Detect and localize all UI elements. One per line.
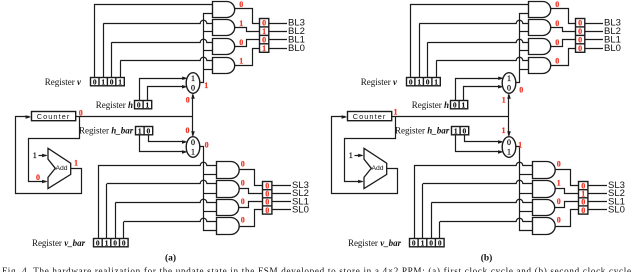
- svg-text:0: 0: [412, 239, 416, 248]
- svg-text:0: 0: [241, 197, 245, 206]
- svg-text:0: 0: [578, 44, 582, 53]
- svg-text:1: 1: [507, 74, 511, 83]
- AND gate SL3 (a): [217, 162, 240, 179]
- svg-text:0: 0: [147, 127, 151, 136]
- svg-text:0: 0: [186, 126, 190, 135]
- wire trunk tee to SL gate 2 (b): [520, 193, 533, 195]
- svg-text:1: 1: [118, 78, 122, 87]
- svg-text:Register h: Register h: [412, 100, 449, 110]
- adder (a): [48, 148, 71, 188]
- wire select to mux2 (b): [508, 117, 510, 136]
- svg-text:1: 1: [557, 179, 561, 188]
- wire BL gate 1 output (a): [235, 9, 260, 24]
- mux U2 (a): [186, 137, 200, 158]
- wire h_bar[0] to mux2 input 0 (b): [465, 135, 502, 142]
- register v_bar cells (b): [410, 239, 445, 247]
- wire trunk tee to BL gate 2 (b): [520, 31, 529, 33]
- wire to BL0 (b): [585, 48, 603, 50]
- AND gate SL2 (b): [533, 181, 556, 198]
- svg-text:0: 0: [426, 78, 430, 87]
- svg-text:1: 1: [204, 81, 208, 90]
- wire mux2 output trunk (a): [200, 147, 217, 231]
- svg-text:1: 1: [191, 74, 195, 83]
- wire to SL1 (b): [588, 201, 607, 203]
- wire to SL3 (b): [588, 185, 607, 187]
- svg-text:0: 0: [519, 85, 523, 94]
- svg-text:0: 0: [239, 0, 243, 9]
- svg-text:1: 1: [421, 239, 425, 248]
- svg-text:1: 1: [105, 239, 109, 248]
- wire trunk tee to BL gate 4 (a): [204, 69, 213, 71]
- wire adder output feedback to counter (b): [332, 117, 398, 194]
- svg-text:Counter: Counter: [37, 112, 71, 121]
- wire h_bar[0] to mux2 input 0 (a): [149, 135, 186, 142]
- wire v[2] to BL gate 2 (a): [103, 24, 105, 78]
- svg-text:Fig. 4. The hardware realiza: Fig. 4. The hardware realization for the…: [2, 266, 634, 272]
- wire v_bar[3] to SL gate 1 (b): [414, 165, 416, 239]
- svg-text:SL0: SL0: [608, 204, 625, 215]
- svg-text:Register h_bar: Register h_bar: [395, 125, 450, 135]
- wire h[0] to mux1 input 0 (b): [464, 87, 502, 101]
- AND gate SL2 (a): [217, 181, 240, 198]
- register h_bar cells (b): [452, 127, 469, 135]
- wire counter output (b): [392, 116, 509, 118]
- wire to SL2 (b): [588, 193, 607, 195]
- wire h[0] to mux1 input 0 (a): [148, 87, 186, 101]
- svg-text:SL0: SL0: [292, 204, 309, 215]
- svg-text:1: 1: [417, 78, 421, 87]
- svg-text:0: 0: [36, 173, 40, 182]
- wire h[1] to mux1 input 1 (b): [456, 79, 502, 101]
- AND gate BL0 (a): [213, 58, 235, 74]
- wire trunk tee to BL gate 4 (b): [520, 69, 529, 71]
- wire SL gate 4 output (b): [556, 210, 579, 227]
- wire to BL1 (a): [269, 39, 287, 41]
- wire v[0] to BL gate 4 (a): [120, 61, 122, 77]
- wire v[3] to BL gate 1 (a): [95, 5, 213, 78]
- register v cells (a): [91, 78, 125, 86]
- wire to BL2 (a): [269, 31, 287, 33]
- wire v_bar[0] to SL gate 4 (a): [123, 222, 125, 240]
- wire trunk tee to SL gate 1 (a): [204, 174, 217, 176]
- AND gate BL2 (a): [213, 20, 235, 36]
- AND gate BL1 (a): [213, 39, 235, 55]
- svg-text:1: 1: [462, 101, 466, 110]
- wire v_bar[3] to SL gate 1 (a): [98, 165, 100, 239]
- AND gate BL3 (a): [213, 2, 235, 18]
- register v cells (b): [407, 78, 441, 86]
- wire SL gate 4 output (a): [240, 210, 263, 227]
- register h cells (b): [451, 101, 468, 109]
- svg-text:0: 0: [429, 239, 433, 248]
- wire trunk tee to BL gate 3 (a): [204, 50, 213, 52]
- wire to SL0 (a): [272, 209, 291, 211]
- wire to BL0 (a): [269, 48, 287, 50]
- AND gate SL3 (b): [533, 162, 556, 179]
- svg-text:Register v_bar: Register v_bar: [348, 238, 402, 248]
- wire SL gate 2 output (a): [240, 189, 263, 194]
- wire trunk tee to SL gate 2 (a): [204, 193, 217, 195]
- svg-text:1: 1: [349, 151, 353, 160]
- svg-text:1: 1: [146, 101, 150, 110]
- svg-text:0: 0: [186, 96, 190, 105]
- svg-text:0: 0: [265, 206, 269, 215]
- wire to SL2 (a): [272, 193, 291, 195]
- AND gate BL3 (b): [529, 2, 551, 18]
- wire SL gate 1 output (a): [240, 170, 263, 186]
- wire v[0] to BL gate 4 (b): [436, 61, 438, 77]
- wire v_bar[1] to SL gate 3 (b): [431, 203, 433, 239]
- mux U1 (a): [186, 73, 200, 94]
- svg-text:1: 1: [502, 96, 506, 105]
- svg-text:0: 0: [555, 19, 559, 28]
- svg-text:1: 1: [74, 158, 78, 167]
- wire SL gate 3 output (a): [239, 202, 263, 208]
- wire v[1] to BL gate 3 (a): [111, 42, 113, 77]
- AND gate SL1 (a): [217, 200, 239, 216]
- wire BL gate 3 output (a): [235, 40, 260, 47]
- svg-text:1: 1: [454, 127, 458, 136]
- BL output register column (b): [576, 19, 585, 53]
- wire counter output (a): [76, 116, 193, 118]
- wire to SL0 (b): [588, 209, 607, 211]
- svg-text:0: 0: [239, 38, 243, 47]
- AND gate SL0 (a): [217, 218, 240, 235]
- svg-text:1: 1: [33, 151, 37, 160]
- wire BL gate 2 output (b): [551, 28, 576, 32]
- wire counter value to adder (b): [345, 117, 396, 182]
- svg-text:0: 0: [79, 109, 83, 118]
- svg-text:Add: Add: [55, 165, 67, 172]
- wire mux1 output trunk (b): [516, 14, 529, 83]
- wire v[3] to BL gate 1 (b): [411, 5, 529, 78]
- wire v_bar[2] to SL gate 2 (b): [422, 184, 424, 239]
- wire to BL1 (b): [585, 39, 603, 41]
- wire to BL2 (b): [585, 31, 603, 33]
- register h cells (a): [135, 101, 152, 109]
- wire trunk tee to SL gate 3 (b): [520, 211, 533, 213]
- wire adder output feedback to counter (a): [16, 117, 82, 194]
- svg-text:1: 1: [101, 78, 105, 87]
- svg-text:0: 0: [463, 127, 467, 136]
- wire h_bar[1] to mux2 input 1 (a): [140, 135, 186, 152]
- mux U2 (b): [502, 137, 516, 158]
- svg-text:1: 1: [239, 57, 243, 66]
- svg-text:1: 1: [434, 78, 438, 87]
- wire SL gate 1 output (b): [556, 170, 579, 186]
- svg-text:0: 0: [557, 216, 561, 225]
- AND gate SL0 (b): [533, 218, 556, 235]
- svg-text:1: 1: [394, 108, 398, 117]
- svg-text:0: 0: [137, 101, 141, 110]
- svg-text:0: 0: [507, 138, 511, 147]
- svg-text:0: 0: [409, 78, 413, 87]
- SL output register column (a): [263, 182, 272, 215]
- AND gate SL1 (b): [533, 200, 555, 216]
- AND gate BL2 (b): [529, 20, 551, 36]
- wire v_bar[1] to SL gate 3 (a): [115, 203, 117, 239]
- svg-text:Register v_bar: Register v_bar: [32, 238, 86, 248]
- svg-text:Add: Add: [371, 165, 383, 172]
- svg-text:1: 1: [502, 126, 506, 135]
- wire v[2] to BL gate 2 (b): [419, 24, 421, 78]
- svg-text:0: 0: [557, 159, 561, 168]
- svg-text:0: 0: [241, 216, 245, 225]
- wire select to mux1 (b): [508, 95, 510, 118]
- wire BL gate 1 output (b): [551, 9, 576, 24]
- svg-text:BL0: BL0: [604, 43, 621, 54]
- svg-text:0: 0: [453, 101, 457, 110]
- AND gate BL1 (b): [529, 39, 551, 55]
- svg-text:1: 1: [262, 44, 266, 53]
- wire h_bar[1] to mux2 input 1 (b): [456, 135, 502, 152]
- svg-text:0: 0: [555, 0, 559, 9]
- wire to SL3 (a): [272, 185, 291, 187]
- wire BL gate 2 output (a): [235, 28, 260, 32]
- wire SL gate 3 output (b): [555, 202, 579, 208]
- wire select to mux1 (a): [192, 95, 194, 118]
- counter (b): [348, 112, 392, 121]
- svg-text:0: 0: [191, 83, 195, 92]
- svg-text:(b): (b): [481, 253, 493, 264]
- svg-text:0: 0: [555, 38, 559, 47]
- svg-text:0: 0: [438, 239, 442, 248]
- wire v[1] to BL gate 3 (b): [427, 42, 429, 77]
- adder (b): [364, 148, 387, 188]
- svg-text:0: 0: [205, 141, 209, 150]
- svg-text:Counter: Counter: [353, 112, 387, 121]
- wire v_bar[2] to SL gate 2 (a): [106, 184, 108, 239]
- svg-text:0: 0: [191, 138, 195, 147]
- register h_bar cells (a): [136, 127, 153, 135]
- svg-text:0: 0: [241, 179, 245, 188]
- BL output register column (a): [260, 19, 269, 53]
- register v_bar cells (a): [94, 239, 129, 247]
- wire v_bar[0] to SL gate 4 (b): [439, 222, 441, 240]
- counter (a): [32, 112, 76, 121]
- svg-text:BL0: BL0: [288, 43, 305, 54]
- svg-text:1: 1: [138, 127, 142, 136]
- wire to BL3 (a): [269, 23, 287, 25]
- svg-text:0: 0: [507, 83, 511, 92]
- svg-text:Register h_bar: Register h_bar: [79, 125, 134, 135]
- svg-text:(a): (a): [165, 253, 176, 264]
- svg-text:1: 1: [191, 147, 195, 156]
- svg-text:Register v: Register v: [361, 77, 398, 87]
- svg-text:0: 0: [96, 239, 100, 248]
- wire trunk tee to SL gate 3 (a): [204, 211, 217, 213]
- svg-text:1: 1: [239, 19, 243, 28]
- svg-text:Register h: Register h: [96, 100, 133, 110]
- wire trunk tee to SL gate 1 (b): [520, 174, 533, 176]
- svg-text:0: 0: [93, 78, 97, 87]
- wire BL gate 4 output (b): [551, 49, 576, 66]
- wire to BL3 (b): [585, 23, 603, 25]
- svg-text:0: 0: [557, 197, 561, 206]
- svg-text:0: 0: [122, 239, 126, 248]
- SL output register column (b): [579, 182, 588, 215]
- svg-text:1: 1: [518, 140, 522, 149]
- wire h[1] to mux1 input 1 (a): [140, 79, 186, 101]
- wire counter value to adder (a): [29, 117, 80, 182]
- wire select to mux2 (a): [192, 117, 194, 136]
- mux U1 (b): [502, 73, 516, 94]
- wire mux2 output trunk (b): [516, 147, 533, 231]
- wire trunk tee to BL gate 2 (a): [204, 31, 213, 33]
- svg-text:0: 0: [110, 78, 114, 87]
- svg-text:0: 0: [581, 206, 585, 215]
- svg-text:Register v: Register v: [45, 77, 82, 87]
- AND gate BL0 (b): [529, 58, 551, 74]
- wire mux1 output trunk (a): [200, 14, 213, 83]
- wire to SL1 (a): [272, 201, 291, 203]
- wire SL gate 2 output (b): [556, 189, 579, 194]
- svg-text:0: 0: [241, 159, 245, 168]
- svg-text:0: 0: [555, 57, 559, 66]
- svg-text:0: 0: [113, 239, 117, 248]
- wire BL gate 4 output (a): [235, 49, 260, 66]
- svg-text:1: 1: [507, 147, 511, 156]
- wire trunk tee to BL gate 3 (b): [520, 50, 529, 52]
- wire BL gate 3 output (b): [551, 40, 576, 47]
